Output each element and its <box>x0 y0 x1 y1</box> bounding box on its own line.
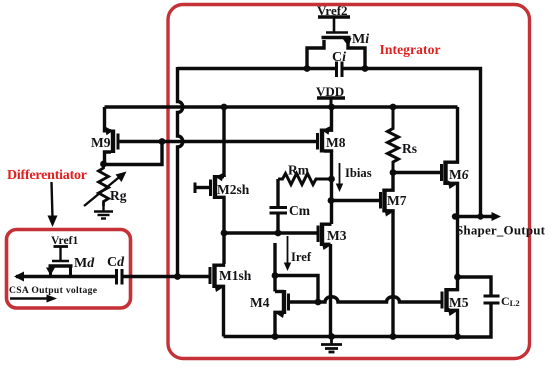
shaper output arrow <box>458 212 502 221</box>
node Rm right on M8 drain <box>328 176 335 183</box>
svg-text:Ibias: Ibias <box>345 166 372 180</box>
node M9 drain / Rg top <box>100 161 107 168</box>
wire VDD rail y=107 <box>105 105 458 108</box>
wire M9 diode loop <box>104 142 163 165</box>
node shaper output feedback tap <box>477 213 483 219</box>
svg-text:Ci: Ci <box>332 50 346 65</box>
svg-text:M2sh: M2sh <box>217 182 250 197</box>
svg-text:Mi: Mi <box>352 32 369 47</box>
integrator block red box <box>168 5 530 359</box>
CSA arrow under text <box>10 295 57 303</box>
svg-text:Rm: Rm <box>288 163 310 178</box>
svg-text:Integrator: Integrator <box>380 42 441 57</box>
node M4 gate loop <box>315 299 322 306</box>
transistor M8 <box>318 107 332 153</box>
wire CL2 bottom to ground rail <box>458 303 492 337</box>
node M2sh drain on rail <box>221 104 228 111</box>
svg-text:M7: M7 <box>387 193 407 208</box>
variable resistor Rg <box>84 164 127 206</box>
wire cascode mid rail y=233 to M3 gate <box>224 231 318 234</box>
svg-text:Shaper_Output: Shaper_Output <box>456 223 546 238</box>
capacitor Cd <box>117 269 123 285</box>
svg-text:M4: M4 <box>250 295 270 310</box>
transistor M2sh <box>195 173 224 200</box>
svg-text:M5: M5 <box>449 295 469 310</box>
wire M3 drain node to M7 gate y=200.5 <box>331 199 381 202</box>
transistor M4 <box>275 290 289 337</box>
node shaper output left <box>452 213 458 219</box>
svg-text:M3: M3 <box>327 228 347 243</box>
wire M8 drain down to M3 drain x=331.5 <box>330 151 333 224</box>
wire M2sh drain to rail x=225 <box>222 107 225 177</box>
node Ci left <box>304 65 311 72</box>
wire ground rail y=336.5 <box>224 335 458 338</box>
node bus bottom on Cd line <box>174 273 181 280</box>
node Cm bottom on M3 gate line <box>275 230 282 237</box>
svg-text:M9: M9 <box>91 135 111 150</box>
capacitor Cm <box>270 179 288 233</box>
transistor M5 <box>442 277 458 337</box>
wire Ci feedback line y=68.5 <box>178 69 481 217</box>
svg-text:M8: M8 <box>326 135 346 150</box>
wire Cd node to M1sh gate y=276.5 <box>123 275 210 278</box>
ground main <box>321 337 342 353</box>
transistor M3 <box>318 223 332 251</box>
svg-text:Vref1: Vref1 <box>51 234 78 247</box>
differentiator block red box <box>7 230 131 309</box>
svg-text:M6: M6 <box>449 167 469 182</box>
wire M3 source down to ground rail <box>329 244 332 337</box>
current arrow Ibias <box>336 163 343 192</box>
wire M5 drain node to CL2 top y=277 <box>458 277 492 296</box>
svg-text:Vref2: Vref2 <box>317 3 348 18</box>
node VDD / M8 source on rail <box>328 104 335 111</box>
node Rs bottom / M7 drain <box>390 169 397 176</box>
capacitor Ci <box>337 62 343 78</box>
resistor Rm <box>278 174 332 185</box>
ground under Rg <box>94 206 113 219</box>
wire M2sh source / M1sh drain x=224 <box>222 198 225 264</box>
capacitor CL2 <box>484 296 500 303</box>
node M9 gate-drain tap <box>159 138 166 145</box>
node M3 drain / M7 gate <box>328 197 335 204</box>
svg-text:Md: Md <box>74 256 95 271</box>
wire CSA input to Cd y=276.5 <box>16 275 116 278</box>
svg-text:Differentiator: Differentiator <box>7 168 87 183</box>
svg-text:Cd: Cd <box>107 255 125 270</box>
node M5 source on ground rail <box>454 333 461 340</box>
node M7 source on ground rail <box>390 333 397 340</box>
node Rs top on rail <box>390 104 397 111</box>
node M4 source on ground rail <box>272 333 279 340</box>
CSA input left arrowhead <box>14 272 24 282</box>
node Ci right <box>362 65 369 72</box>
svg-text:VDD: VDD <box>316 84 344 99</box>
wire Rs bottom node to M6 gate y=172.5 <box>393 171 442 174</box>
power VDD <box>317 98 345 107</box>
transistor M7 <box>381 173 394 217</box>
node M2sh source / M1sh drain <box>221 230 228 237</box>
node M4 drain tap <box>272 272 279 279</box>
svg-text:Rg: Rg <box>110 188 127 203</box>
arrow from Differentiator label to box <box>48 182 58 227</box>
node M3 source / ground stem <box>328 333 335 340</box>
wire output node down to M5/CL2 x=457.5 <box>456 217 459 278</box>
wire M9/M8 gate line y=141.5 <box>118 140 318 143</box>
wire M7 source down to ground rail <box>391 211 394 337</box>
node M5 drain / CL2 <box>454 274 461 281</box>
svg-text:M1sh: M1sh <box>219 268 252 283</box>
transistor M6 <box>442 107 458 217</box>
svg-text:Cm: Cm <box>289 203 311 218</box>
resistor Rs <box>388 107 399 173</box>
svg-text:CSA Output voltage: CSA Output voltage <box>9 285 98 296</box>
svg-text:Rs: Rs <box>402 141 417 156</box>
svg-text:Iref: Iref <box>291 250 312 264</box>
wire M4 drain bar (Iref tail) x=275 <box>273 243 276 292</box>
transistor M9 <box>105 107 119 165</box>
transistor M1sh <box>210 264 224 337</box>
wire integrator input bus x=178 with hops <box>178 67 183 277</box>
wire M4/M5 gate line y=302 with hops <box>289 297 442 302</box>
current arrow Iref <box>284 236 291 271</box>
wire M4 diode loop to gate line <box>275 276 318 303</box>
transistor Md <box>46 247 73 277</box>
transistor Mi <box>307 17 365 69</box>
